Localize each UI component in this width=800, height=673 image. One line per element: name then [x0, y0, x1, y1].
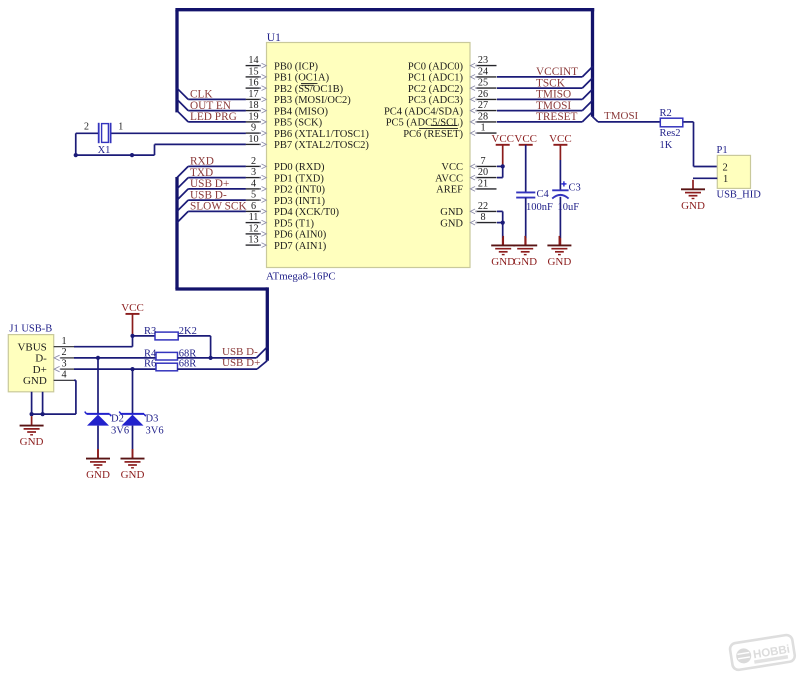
svg-text:P1: P1 — [717, 145, 728, 156]
wire net SLOW SCK (pin6) — [177, 201, 247, 223]
svg-text:ATmega8-16PC: ATmega8-16PC — [266, 271, 336, 283]
svg-text:PB6 (XTAL1/TOSC1): PB6 (XTAL1/TOSC1) — [274, 129, 369, 140]
svg-text:PD5 (T1): PD5 (T1) — [274, 218, 314, 229]
U1 pin 24 stub — [470, 66, 496, 79]
svg-text:3V6: 3V6 — [146, 425, 164, 436]
wire X1 bottom riser — [154, 144, 156, 155]
svg-text:1: 1 — [723, 174, 728, 185]
wire X1 pin2 left — [76, 132, 98, 134]
svg-text:4: 4 — [251, 178, 256, 189]
wire J1 shell pin A — [31, 392, 33, 414]
svg-text:USB D+: USB D+ — [190, 178, 229, 190]
wire net OUT EN (pin18) — [177, 99, 246, 111]
net label TMOSI — [604, 110, 639, 122]
svg-text:VCC: VCC — [549, 133, 572, 145]
svg-text:1: 1 — [61, 336, 66, 347]
U1 pin 5 stub — [246, 190, 267, 203]
svg-text:28: 28 — [478, 111, 488, 122]
U1 pin 13 stub — [246, 235, 267, 248]
svg-text:20: 20 — [478, 167, 488, 178]
svg-text:19: 19 — [248, 111, 258, 122]
svg-text:5: 5 — [251, 190, 256, 201]
U1 pin 28 stub — [470, 111, 496, 124]
wire U1 pin22 link — [497, 210, 503, 212]
svg-text:PB3 (MOSI/OC2): PB3 (MOSI/OC2) — [274, 95, 351, 106]
watermark logo — [729, 634, 795, 671]
svg-text:3: 3 — [251, 167, 256, 178]
svg-text:VCC: VCC — [121, 302, 144, 314]
wire U1 pin8 link — [497, 222, 503, 224]
power VCC symbol col2 — [514, 133, 537, 145]
svg-text:PD4 (XCK/T0): PD4 (XCK/T0) — [274, 207, 340, 218]
U1 pin 15 stub — [246, 66, 267, 79]
svg-text:11: 11 — [249, 212, 259, 223]
svg-text:GND: GND — [440, 218, 463, 229]
wire net TXD (pin3) — [177, 167, 246, 189]
U1 pin 1 stub — [470, 123, 496, 136]
IC U1 designator label — [267, 32, 281, 44]
svg-text:D-: D- — [35, 353, 47, 365]
ground symbol at P1 — [681, 180, 705, 212]
svg-text:4: 4 — [61, 370, 66, 381]
wire net TMISO (pin26) — [497, 89, 593, 101]
svg-text:3: 3 — [61, 358, 66, 369]
svg-text:PD2 (INT0): PD2 (INT0) — [274, 185, 326, 196]
svg-text:PD6 (AIN0): PD6 (AIN0) — [274, 230, 327, 241]
wire net TMOSI (pin27) — [497, 100, 593, 112]
svg-text:21: 21 — [478, 178, 488, 189]
wire C3 to GND — [559, 197, 561, 246]
U1 pin 27 stub — [470, 100, 496, 113]
svg-text:SLOW SCK: SLOW SCK — [190, 201, 247, 213]
svg-text:PD1 (TXD): PD1 (TXD) — [274, 173, 324, 184]
wire net USB D- (pin5) — [177, 189, 246, 211]
wire J1 pin3 to R6 — [74, 368, 156, 370]
net label USB D- (bottom) — [222, 346, 258, 358]
node X1 bottom-left junction — [74, 153, 78, 157]
power VCC symbol col3 — [549, 133, 572, 145]
wire VCC to R3 node — [132, 314, 134, 336]
connector P1 USB_HID — [717, 145, 762, 200]
svg-text:D+: D+ — [33, 364, 47, 376]
wire R4 to bus entry — [178, 347, 268, 358]
svg-text:GND: GND — [513, 256, 537, 268]
U1 pin 14 stub — [246, 55, 267, 68]
svg-text:13: 13 — [248, 235, 258, 246]
U1 pin 7 stub — [470, 156, 496, 169]
wire D2 drop — [97, 358, 99, 414]
U1 pin 18 stub — [246, 100, 267, 113]
svg-text:10: 10 — [248, 134, 258, 145]
svg-text:8: 8 — [480, 212, 485, 223]
U1 pin 19 stub — [246, 111, 267, 124]
IC U1 value label ATmega8-16PC — [266, 271, 336, 283]
svg-text:2: 2 — [84, 122, 89, 133]
svg-text:PD0 (RXD): PD0 (RXD) — [274, 162, 325, 173]
wire D2 anode to GND — [97, 426, 99, 459]
svg-text:LED PRG: LED PRG — [190, 111, 237, 123]
wire R3 right to D- node — [178, 336, 210, 358]
svg-text:GND: GND — [121, 469, 145, 481]
svg-text:R3: R3 — [144, 326, 156, 337]
wire U1 pin20 link — [497, 177, 503, 179]
wire P1 pin1 to GND — [693, 177, 717, 179]
svg-text:2: 2 — [723, 162, 728, 173]
svg-text:U1: U1 — [267, 32, 281, 44]
ground symbol col1 — [491, 236, 515, 268]
svg-text:68R: 68R — [179, 359, 197, 370]
ground symbol col3 — [547, 236, 571, 268]
svg-text:RXD: RXD — [190, 156, 214, 168]
bus segment top horizontal — [175, 8, 594, 11]
zener diode D3 3V6 — [119, 412, 163, 437]
svg-text:1: 1 — [480, 123, 485, 134]
ground symbol col2 — [513, 236, 537, 268]
svg-text:9: 9 — [251, 123, 256, 134]
wire net CLK (pin17) — [177, 88, 246, 100]
wire col1 pin7-pin20 — [502, 166, 504, 177]
U1 pin 12 stub — [246, 223, 267, 236]
svg-text:R6: R6 — [144, 359, 156, 370]
wire net RXD (pin2) — [177, 156, 246, 178]
svg-text:16: 16 — [248, 78, 258, 89]
wire J1 shell pin B — [42, 392, 44, 414]
wire X1 bottom horizontal — [76, 154, 155, 156]
svg-text:CLK: CLK — [190, 89, 213, 101]
node J1 shell junction A — [30, 412, 34, 416]
svg-text:C4: C4 — [537, 189, 550, 200]
svg-text:TRESET: TRESET — [536, 111, 578, 123]
svg-text:VCC: VCC — [491, 133, 514, 145]
svg-text:PC6 (RESET): PC6 (RESET) — [403, 129, 463, 140]
wire net LED PRG (pin19) — [177, 111, 246, 123]
svg-text:VCC: VCC — [514, 133, 537, 145]
U1 pin 22 stub — [470, 201, 496, 214]
wire VCC col1 stub — [502, 145, 504, 167]
svg-text:TMOSI: TMOSI — [604, 110, 639, 122]
wire net TRESET (pin28) — [497, 111, 593, 123]
J1 pin 2 glyph+number — [54, 347, 75, 360]
svg-text:PB4 (MISO): PB4 (MISO) — [274, 106, 328, 117]
capacitor C3 10uF — [552, 181, 581, 213]
svg-text:27: 27 — [478, 100, 488, 111]
svg-text:23: 23 — [478, 55, 488, 66]
svg-text:PB7 (XTAL2/TOSC2): PB7 (XTAL2/TOSC2) — [274, 140, 369, 151]
svg-text:USB D-: USB D- — [190, 189, 227, 201]
svg-text:USB D-: USB D- — [222, 346, 258, 358]
svg-text:1K: 1K — [660, 140, 673, 151]
svg-text:PD7 (AIN1): PD7 (AIN1) — [274, 241, 327, 252]
U1 pin 16 stub — [246, 78, 267, 91]
IC U1 ATmega8-16PC body — [267, 43, 471, 268]
wire R2 to P1 pin2 — [684, 122, 718, 167]
bus segment top-left vertical — [175, 10, 178, 113]
svg-text:D3: D3 — [146, 413, 159, 424]
node VCC/R3/VBUS junction — [130, 334, 134, 338]
svg-text:PC4 (ADC4/SDA): PC4 (ADC4/SDA) — [384, 106, 464, 117]
wire X1 pin1 to U1 pin9 — [111, 132, 245, 134]
svg-text:USB D+: USB D+ — [222, 357, 260, 369]
svg-text:TMISO: TMISO — [536, 89, 571, 101]
svg-text:GND: GND — [491, 256, 515, 268]
net label USB D+ (bottom) — [222, 357, 260, 369]
wire bus tail to TMOSI — [593, 117, 599, 122]
svg-text:25: 25 — [478, 78, 488, 89]
U1 pin 25 stub — [470, 78, 496, 91]
U1 pin 8 stub — [470, 212, 496, 225]
svg-text:26: 26 — [478, 89, 488, 100]
J1 pin 1 number — [54, 336, 75, 347]
svg-text:USB_HID: USB_HID — [717, 190, 762, 201]
node D3 junction — [130, 367, 134, 371]
wire VCC col3 to C3 — [559, 145, 561, 190]
node VCC pin7 junction — [501, 164, 505, 168]
svg-text:PC3 (ADC3): PC3 (ADC3) — [408, 95, 464, 106]
svg-text:6: 6 — [251, 201, 256, 212]
U1 pin 3 stub — [246, 167, 267, 180]
wire D3 drop — [132, 369, 134, 414]
svg-text:7: 7 — [480, 156, 485, 167]
svg-text:18: 18 — [248, 100, 258, 111]
svg-text:VBUS: VBUS — [17, 342, 46, 354]
wire U1 pin7 to VCC — [497, 165, 503, 167]
svg-text:PB5 (SCK): PB5 (SCK) — [274, 118, 323, 129]
ground symbol D3 — [121, 449, 145, 481]
svg-text:1: 1 — [118, 122, 123, 133]
svg-text:3V6: 3V6 — [111, 425, 129, 436]
J1 pin 4 number — [54, 370, 75, 381]
crystal X1 — [84, 122, 123, 156]
U1 pin 26 stub — [470, 89, 496, 102]
wire J1 pin4 route — [32, 380, 76, 414]
svg-text:PC1 (ADC1): PC1 (ADC1) — [408, 73, 464, 84]
node X1 bottom junction — [130, 153, 134, 157]
svg-text:PB0 (ICP): PB0 (ICP) — [274, 61, 319, 72]
wire net TMOSI to R2 — [598, 121, 660, 123]
resistor R4 68R — [144, 348, 196, 360]
wire to U1 pin10 — [155, 143, 246, 145]
bus segment lower-right vertical — [266, 287, 269, 360]
svg-text:TXD: TXD — [190, 167, 213, 179]
node GND pin8 junction — [501, 221, 505, 225]
resistor R2 1K — [660, 108, 683, 151]
capacitor C4 100nF — [516, 189, 553, 213]
svg-text:D2: D2 — [111, 413, 124, 424]
svg-text:PB1 (OC1A): PB1 (OC1A) — [274, 73, 330, 84]
svg-text:2: 2 — [61, 347, 66, 358]
ground symbol D2 — [86, 449, 110, 481]
svg-text:VCC: VCC — [441, 162, 463, 173]
U1 pin 4 stub — [246, 178, 267, 191]
power VCC symbol J1 — [121, 302, 144, 314]
wire C4 to GND — [525, 198, 527, 246]
svg-text:VCCINT: VCCINT — [536, 66, 578, 78]
svg-text:2: 2 — [251, 156, 256, 167]
IC U1 pin name texts — [274, 61, 464, 252]
svg-text:GND: GND — [440, 207, 463, 218]
U1 pin 6 stub — [246, 201, 267, 214]
svg-text:24: 24 — [478, 66, 488, 77]
svg-text:J1 USB-B: J1 USB-B — [9, 323, 52, 334]
resistor R3 2K2 — [144, 326, 197, 340]
power VCC symbol col1 — [491, 133, 514, 145]
svg-text:AVCC: AVCC — [435, 173, 463, 184]
svg-text:GND: GND — [681, 200, 705, 212]
svg-text:22: 22 — [478, 201, 488, 212]
U1 pin 17 stub — [246, 89, 267, 102]
node D2 junction — [96, 356, 100, 360]
svg-text:17: 17 — [248, 89, 258, 100]
wire net VCCINT (pin24) — [497, 66, 593, 78]
ground symbol J1 — [20, 416, 44, 448]
wire R3 left — [133, 335, 156, 337]
wire D3 anode to GND — [132, 426, 134, 459]
wire VCC col2 to C4 — [525, 145, 527, 192]
svg-text:TMOSI: TMOSI — [536, 100, 571, 112]
resistor R6 68R — [144, 359, 196, 371]
svg-text:PC0 (ADC0): PC0 (ADC0) — [408, 61, 464, 72]
svg-text:R2: R2 — [660, 108, 672, 119]
U1 pin 20 stub — [470, 167, 496, 180]
svg-text:100nF: 100nF — [526, 202, 553, 213]
wire VBUS pin1 — [74, 346, 133, 348]
zener diode D2 3V6 — [85, 412, 129, 437]
wire R6 to bus tip — [178, 361, 268, 369]
svg-text:GND: GND — [86, 469, 110, 481]
J1 pin 3 glyph+number — [54, 358, 75, 371]
U1 pin 9 stub — [246, 123, 267, 136]
node J1 shell junction B — [41, 412, 45, 416]
svg-text:C3: C3 — [569, 183, 581, 194]
svg-text:GND: GND — [23, 375, 47, 387]
node R3/D- junction — [209, 356, 213, 360]
svg-text:AREF: AREF — [436, 185, 463, 196]
U1 pin 21 stub — [470, 178, 496, 191]
U1 pin 11 stub — [246, 212, 267, 225]
wire X1 left drop — [75, 133, 77, 155]
svg-text:PC5 (ADC5/SCL): PC5 (ADC5/SCL) — [386, 118, 464, 129]
U1 pin 23 stub — [470, 55, 496, 68]
svg-text:Res2: Res2 — [660, 128, 681, 139]
svg-text:12: 12 — [248, 223, 258, 234]
svg-text:PC2 (ADC2): PC2 (ADC2) — [408, 84, 464, 95]
wire net USB D+ (pin4) — [177, 178, 246, 200]
svg-text:GND: GND — [20, 436, 44, 448]
bus segment top-right vertical — [591, 8, 594, 117]
bus segment lower horizontal — [175, 287, 267, 290]
svg-text:PD3 (INT1): PD3 (INT1) — [274, 196, 326, 207]
U1 pin 2 stub — [246, 156, 267, 169]
svg-text:X1: X1 — [98, 145, 111, 156]
svg-text:14: 14 — [248, 55, 258, 66]
wire col1 pin22-pin8 — [502, 211, 504, 222]
wire J1 pin2 to R4 — [74, 357, 156, 359]
wire col1 to GND — [502, 223, 504, 246]
svg-text:OUT EN: OUT EN — [190, 100, 231, 112]
U1 pin 10 stub — [246, 134, 267, 147]
svg-text:TSCK: TSCK — [536, 77, 566, 89]
wire net TSCK (pin25) — [497, 77, 593, 89]
connector J1 USB-B — [8, 323, 53, 392]
svg-text:GND: GND — [547, 256, 571, 268]
wire VBUS riser — [132, 336, 134, 347]
bus segment lower-left vertical — [175, 177, 178, 289]
svg-text:15: 15 — [248, 66, 258, 77]
